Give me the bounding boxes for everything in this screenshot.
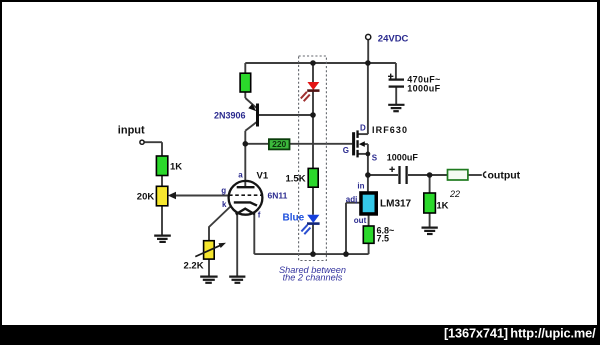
svg-text:IRF630: IRF630 (372, 125, 408, 135)
svg-text:V1: V1 (257, 171, 269, 182)
svg-text:1K: 1K (436, 200, 448, 211)
svg-text:g: g (221, 186, 226, 195)
svg-text:out: out (354, 216, 367, 225)
svg-text:G: G (343, 146, 349, 155)
svg-text:220: 220 (272, 139, 286, 149)
svg-text:the 2 channels: the 2 channels (283, 273, 343, 283)
svg-text:1K: 1K (170, 162, 182, 173)
svg-text:S: S (372, 154, 378, 163)
svg-text:22: 22 (449, 189, 460, 199)
svg-text:output: output (488, 169, 521, 181)
svg-text:2.2K: 2.2K (184, 261, 204, 272)
svg-text:7.5: 7.5 (377, 234, 390, 244)
svg-text:1.5K: 1.5K (286, 174, 306, 185)
svg-text:a: a (238, 170, 243, 179)
svg-text:input: input (118, 124, 145, 136)
svg-text:LM317: LM317 (380, 199, 412, 210)
svg-text:24VDC: 24VDC (378, 33, 409, 44)
svg-text:20K: 20K (137, 192, 155, 203)
svg-text:Blue: Blue (283, 212, 305, 223)
svg-text:6N11: 6N11 (268, 191, 288, 201)
svg-text:D: D (360, 123, 366, 132)
svg-text:1000uF: 1000uF (407, 83, 440, 93)
svg-text:k: k (222, 200, 227, 209)
svg-text:adj: adj (346, 195, 358, 204)
svg-text:1000uF: 1000uF (387, 153, 419, 163)
svg-text:2N3906: 2N3906 (214, 111, 246, 121)
svg-text:[1367x741] http://upic.me/: [1367x741] http://upic.me/ (444, 326, 596, 341)
svg-text:in: in (357, 182, 364, 191)
svg-text:f: f (258, 211, 261, 220)
